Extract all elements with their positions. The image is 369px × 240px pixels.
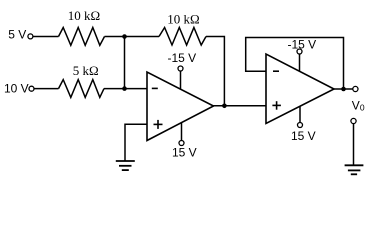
svg-text:5 kΩ: 5 kΩ bbox=[73, 63, 99, 78]
svg-text:-15 V: -15 V bbox=[168, 51, 197, 65]
svg-text:15 V: 15 V bbox=[172, 146, 197, 160]
svg-text:15 V: 15 V bbox=[291, 129, 316, 143]
svg-text:10 kΩ: 10 kΩ bbox=[167, 12, 199, 27]
svg-text:10 kΩ: 10 kΩ bbox=[68, 8, 100, 23]
svg-text:10 V: 10 V bbox=[4, 82, 29, 96]
svg-text:5 V: 5 V bbox=[8, 28, 26, 42]
svg-text:-15 V: -15 V bbox=[288, 38, 317, 52]
